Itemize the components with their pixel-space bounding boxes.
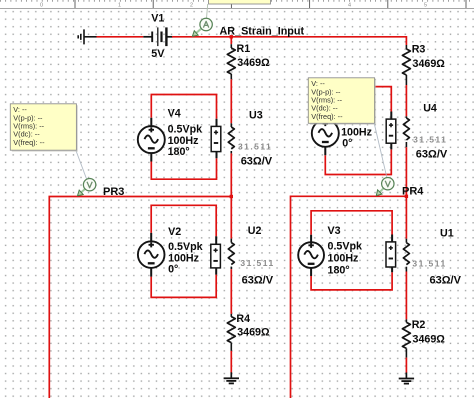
wire: junction to right corner, down to R3	[231, 37, 406, 45]
strain gauge U4	[405, 116, 407, 118]
wire PR3 node to left and down	[49, 197, 231, 398]
wire R3 to U4	[405, 85, 407, 116]
svg-text:R3: R3	[412, 43, 426, 55]
AC source V4	[138, 126, 165, 153]
leader line from left tooltip to probe PR3	[76, 151, 87, 180]
svg-text:180°: 180°	[168, 146, 190, 158]
V4 top/bottom black leads	[151, 118, 216, 162]
svg-text:63Ω/V: 63Ω/V	[416, 148, 448, 160]
svg-text:63Ω/V: 63Ω/V	[241, 155, 273, 167]
svg-text:V4: V4	[168, 107, 181, 119]
svg-text:5V: 5V	[151, 48, 165, 60]
svg-text:U3: U3	[249, 109, 263, 121]
wire U4 to PR4 junction	[405, 147, 407, 196]
resistor R3	[405, 45, 407, 49]
svg-text:AR_Strain_Input: AR_Strain_Input	[220, 25, 305, 37]
wire loop of source V4	[151, 95, 216, 180]
wire: battery to node AR_Strain_Input junction	[172, 36, 231, 38]
strain gauge U2	[230, 239, 232, 243]
resistor R2	[405, 319, 407, 322]
junction PR3 node	[230, 195, 233, 198]
ground (bottom-left branch)	[230, 372, 232, 378]
svg-text:3469Ω: 3469Ω	[237, 57, 270, 69]
U1 control box	[386, 242, 396, 267]
svg-text:0°: 0°	[342, 138, 352, 150]
U2 control box	[211, 244, 221, 268]
resistor R1	[230, 44, 232, 48]
svg-text:U1: U1	[440, 227, 454, 239]
ground (top-left, rotated)	[78, 29, 84, 44]
AC source V3	[298, 242, 324, 268]
leader line from right tooltip to probe PR4	[374, 123, 387, 177]
leader line from top tooltip to probe A	[207, 4, 208, 18]
U4 control box	[386, 119, 396, 143]
upper right source loop (name hidden by tooltip)	[325, 87, 391, 175]
V2 leads	[151, 233, 216, 277]
ground (bottom-right branch)	[405, 373, 407, 379]
wire R4 to ground	[230, 351, 232, 373]
AC source (upper right)	[312, 120, 339, 147]
svg-text:3469Ω: 3469Ω	[237, 327, 270, 339]
svg-text:0.5Vpk: 0.5Vpk	[168, 241, 203, 253]
AC source V2	[138, 241, 165, 268]
svg-text:31.511: 31.511	[238, 141, 272, 151]
wire R1 to U3	[230, 79, 232, 123]
svg-text:V2: V2	[168, 226, 181, 238]
wire U2 to R4	[230, 269, 232, 314]
ruler major ticks	[75, 0, 466, 8]
svg-text:63Ω/V: 63Ω/V	[430, 275, 462, 287]
svg-text:3469Ω: 3469Ω	[413, 333, 446, 345]
svg-text:PR3: PR3	[103, 186, 124, 198]
svg-text:100Hz: 100Hz	[168, 252, 199, 264]
svg-text:63Ω/V: 63Ω/V	[242, 275, 274, 287]
svg-text:0.5Vpk: 0.5Vpk	[168, 124, 203, 136]
ruler bottom border	[0, 7, 474, 9]
current probe A	[194, 28, 202, 35]
tooltip (left, probe readout)	[12, 105, 78, 151]
svg-text:100Hz: 100Hz	[168, 135, 199, 147]
svg-text:4: 4	[348, 3, 351, 9]
svg-text:31.511: 31.511	[240, 258, 274, 268]
svg-text:R2: R2	[412, 319, 426, 331]
U3 control box	[211, 126, 221, 151]
svg-text:5: 5	[424, 3, 427, 9]
svg-text:0°: 0°	[168, 264, 178, 276]
svg-text:100Hz: 100Hz	[341, 126, 372, 138]
wire U1 to R2	[405, 272, 407, 320]
svg-text:V1: V1	[151, 13, 164, 25]
svg-text:0.5Vpk: 0.5Vpk	[328, 241, 363, 253]
battery V1	[143, 36, 152, 38]
wire PR4 junction to U1	[405, 196, 407, 238]
wire R1 top lead	[230, 37, 232, 44]
top yellow tooltip band (partially offscreen)	[209, 0, 271, 4]
wire PR3 junction to U2	[230, 197, 232, 239]
junction PR4 node	[405, 195, 408, 198]
wire: ground to battery V1	[97, 36, 144, 38]
svg-text:31.511: 31.511	[412, 259, 446, 269]
svg-text:V(freq): --: V(freq): --	[13, 138, 45, 147]
svg-text:U2: U2	[248, 225, 262, 237]
svg-text:R1: R1	[237, 43, 251, 55]
svg-text:R4: R4	[236, 313, 250, 325]
svg-text:U4: U4	[423, 102, 437, 114]
V3 leads	[311, 235, 392, 277]
junction at R1 branch	[230, 35, 233, 38]
upper right source leads	[325, 112, 391, 156]
svg-text:V(freq): --: V(freq): --	[311, 112, 343, 121]
wire PR4 node across and down	[291, 196, 407, 398]
svg-text:100Hz: 100Hz	[328, 253, 359, 265]
voltage probe PR3	[79, 189, 85, 195]
wire U3 to PR3 junction	[230, 153, 232, 196]
wire R2 to ground	[405, 358, 407, 373]
svg-text:31.511: 31.511	[413, 134, 447, 144]
svg-text:PR4: PR4	[402, 186, 424, 198]
strain gauge U1	[405, 239, 407, 243]
ruler minor ticks	[1, 0, 470, 2]
svg-text:1: 1	[118, 3, 121, 9]
wire loop of source V2	[151, 205, 216, 297]
svg-text:0: 0	[40, 3, 43, 9]
V3 loop	[311, 211, 392, 290]
svg-text:2: 2	[190, 3, 193, 9]
resistor R4	[230, 314, 232, 317]
svg-text:V3: V3	[328, 225, 341, 237]
svg-text:180°: 180°	[328, 264, 350, 276]
strain gauge U3	[230, 123, 232, 127]
voltage probe PR4	[378, 188, 384, 194]
svg-text:3469Ω: 3469Ω	[413, 58, 446, 70]
tooltip (right, probe readout)	[310, 79, 376, 125]
